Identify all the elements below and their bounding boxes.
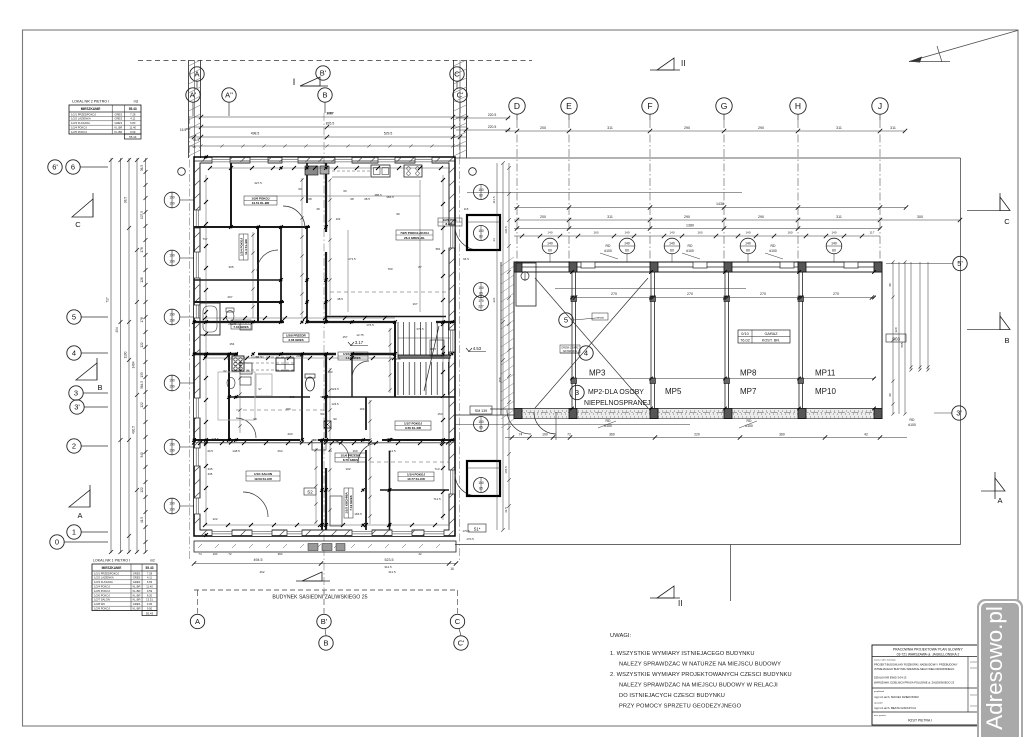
svg-text:282.5: 282.5 — [228, 322, 236, 326]
svg-text:55.43: 55.43 — [129, 135, 137, 139]
svg-text:160: 160 — [352, 449, 357, 453]
svg-text:WARSZAWA, DZIELNICA PRAGA POLU: WARSZAWA, DZIELNICA PRAGA POLUDNIE ul. Z… — [874, 681, 955, 685]
svg-text:55.43: 55.43 — [146, 566, 154, 570]
svg-text:#100: #100 — [604, 249, 612, 253]
svg-text:133: 133 — [140, 372, 144, 378]
svg-text:494: 494 — [115, 327, 119, 333]
svg-text:4.11: 4.11 — [147, 576, 153, 580]
svg-text:62: 62 — [223, 369, 227, 373]
svg-text:m2: m2 — [134, 100, 139, 104]
svg-text:76.02: 76.02 — [740, 339, 750, 343]
svg-text:7/2/5 POKOJ+KUCH: 7/2/5 POKOJ+KUCH — [400, 231, 428, 235]
svg-text:Adresowo.pl: Adresowo.pl — [982, 606, 1007, 730]
svg-text:270: 270 — [833, 292, 839, 296]
grid axis A vertical dash-dot — [189, 116, 191, 560]
svg-text:1464: 1464 — [132, 361, 136, 368]
svg-text:97: 97 — [258, 387, 262, 391]
svg-text:1087: 1087 — [327, 111, 334, 115]
svg-text:44: 44 — [328, 449, 332, 453]
svg-text:4: 4 — [584, 349, 588, 358]
svg-text:3: 3 — [575, 388, 579, 397]
svg-text:42: 42 — [418, 552, 422, 556]
svg-text:I: I — [293, 77, 296, 87]
svg-text:311: 311 — [836, 215, 842, 219]
grid axis C vertical dash-dot — [459, 113, 461, 560]
bottom dimension line — [194, 563, 456, 565]
svg-text:523.5: 523.5 — [385, 558, 394, 562]
svg-text:1438: 1438 — [716, 202, 724, 206]
svg-text:MP7: MP7 — [740, 387, 757, 396]
svg-text:90: 90 — [888, 393, 892, 397]
svg-text:157: 157 — [342, 335, 347, 339]
svg-text:MP3: MP3 — [589, 369, 606, 378]
svg-text:4.11: 4.11 — [130, 117, 136, 121]
svg-text:140: 140 — [745, 242, 751, 246]
grid bubble C top — [450, 67, 464, 81]
svg-text:12.75: 12.75 — [356, 333, 364, 337]
left chain ticks — [144, 158, 148, 554]
svg-text:311: 311 — [836, 126, 842, 130]
svg-text:68: 68 — [308, 197, 312, 201]
svg-text:386.5: 386.5 — [374, 193, 382, 197]
WC toilet — [226, 311, 234, 322]
grid bubble 5' right — [953, 256, 967, 270]
grid bubble B' top — [316, 66, 330, 80]
washbasin — [240, 322, 252, 330]
schedule table top-left — [69, 100, 141, 140]
svg-text:122: 122 — [140, 487, 144, 493]
svg-text:122: 122 — [140, 402, 144, 408]
svg-text:60: 60 — [832, 249, 836, 253]
svg-text:GRES: GRES — [115, 121, 123, 125]
room label top-left 2 vertical — [239, 234, 248, 260]
svg-text:H: H — [795, 101, 801, 111]
svg-text:RZUT PIETRA I: RZUT PIETRA I — [908, 719, 932, 723]
svg-text:320: 320 — [894, 327, 898, 332]
title block — [872, 645, 985, 725]
svg-text:#100: #100 — [769, 249, 777, 253]
svg-text:529.5: 529.5 — [384, 132, 393, 136]
svg-text:150: 150 — [169, 449, 175, 453]
svg-text:6: 6 — [71, 163, 75, 172]
svg-text:MP11: MP11 — [815, 369, 836, 378]
svg-text:94.5: 94.5 — [430, 347, 436, 351]
svg-text:40.5: 40.5 — [197, 438, 203, 442]
svg-text:360: 360 — [609, 433, 615, 437]
section flag II bottom — [650, 586, 682, 608]
svg-text:5: 5 — [564, 316, 568, 325]
svg-text:E: E — [566, 101, 572, 111]
svg-text:MIESZKANIE: MIESZKANIE — [102, 566, 122, 570]
svg-text:PRACOWNIA PROJEKTOWA 'PLAN GLO: PRACOWNIA PROJEKTOWA 'PLAN GLOWNY' — [893, 648, 964, 652]
beam dashed lines — [330, 291, 446, 293]
svg-text:MIESZKANIE: MIESZKANIE — [81, 107, 101, 111]
svg-text:74: 74 — [519, 433, 523, 437]
svg-text:KL.BR: KL.BR — [133, 607, 141, 611]
svg-text:790: 790 — [387, 267, 392, 271]
svg-text:10.77 KL.DR: 10.77 KL.DR — [407, 477, 425, 481]
svg-text:150: 150 — [169, 254, 175, 258]
svg-text:C': C' — [457, 91, 464, 100]
balcony box lower right — [467, 461, 500, 496]
garage X brace — [535, 278, 648, 408]
svg-text:41.5: 41.5 — [140, 517, 144, 523]
svg-text:9.50 KL.DR: 9.50 KL.DR — [405, 426, 422, 430]
svg-text:90: 90 — [298, 187, 302, 191]
svg-text:KL.BR: KL.BR — [133, 598, 141, 602]
svg-text:11.4 KL.BR: 11.4 KL.BR — [244, 238, 248, 255]
svg-text:462: 462 — [259, 570, 264, 574]
building-above wall strips — [188, 60, 190, 158]
leader 6 — [81, 166, 109, 168]
svg-text:1/2/1 PRZEDPOKOJ: 1/2/1 PRZEDPOKOJ — [94, 571, 120, 575]
svg-text:44: 44 — [312, 438, 316, 442]
svg-text:585: 585 — [900, 342, 904, 347]
garage mid line — [572, 378, 874, 380]
svg-text:5: 5 — [72, 313, 76, 322]
section flag A left — [69, 485, 90, 520]
svg-text:717: 717 — [202, 237, 207, 241]
svg-text:122: 122 — [140, 342, 144, 348]
garage roof drain boxes — [581, 262, 595, 268]
svg-text:4: 4 — [72, 349, 76, 358]
floor drain — [324, 421, 331, 428]
svg-text:50: 50 — [320, 395, 324, 399]
svg-text:2. WSZYSTKIE WYMIARY PROJEKTOW: 2. WSZYSTKIE WYMIARY PROJEKTOWANYCH CZES… — [610, 672, 792, 678]
svg-text:290: 290 — [684, 215, 690, 219]
svg-text:9.50: 9.50 — [147, 607, 153, 611]
svg-text:GRES: GRES — [115, 117, 123, 121]
grid bubble C bottom — [450, 614, 464, 628]
svg-text:311.5: 311.5 — [384, 565, 392, 569]
grid bubble 3' left — [70, 400, 84, 414]
svg-text:6.83: 6.83 — [147, 580, 153, 584]
svg-text:projektowal: projektowal — [874, 690, 885, 693]
svg-text:RD: RD — [606, 419, 611, 423]
svg-text:68: 68 — [350, 197, 354, 201]
grid bubble 1 left — [67, 525, 81, 539]
svg-text:36.5: 36.5 — [140, 165, 144, 171]
svg-text:GARAZ: GARAZ — [764, 332, 778, 336]
svg-text:#100: #100 — [604, 424, 612, 428]
svg-text:169: 169 — [360, 407, 365, 411]
svg-text:KOST. BR.: KOST. BR. — [762, 339, 780, 343]
svg-text:311.5: 311.5 — [388, 449, 396, 453]
svg-text:717: 717 — [106, 297, 110, 303]
svg-text:80: 80 — [479, 194, 483, 198]
long site line upper — [467, 192, 742, 194]
svg-text:KL.BR: KL.BR — [133, 593, 141, 597]
grid bubble B' bottom — [317, 614, 331, 628]
site line vertical stub — [730, 545, 732, 602]
svg-text:UWAGI:: UWAGI: — [610, 633, 632, 639]
room label kuchnia lower-center vertical — [344, 488, 353, 518]
small fixtures right mid — [430, 340, 444, 356]
svg-text:98: 98 — [253, 417, 257, 421]
room label right top small — [438, 218, 462, 226]
svg-text:366.5: 366.5 — [386, 195, 394, 199]
svg-text:5': 5' — [957, 259, 963, 268]
svg-text:B: B — [323, 639, 328, 648]
svg-text:494.5: 494.5 — [254, 558, 263, 562]
section flag II top — [650, 58, 685, 70]
grid bubble 3' right — [952, 406, 966, 420]
svg-text:150: 150 — [169, 443, 175, 447]
svg-text:GRES: GRES — [133, 576, 141, 580]
svg-text:150: 150 — [169, 379, 175, 383]
svg-text:200: 200 — [540, 126, 546, 130]
svg-text:1/2/7 SALON: 1/2/7 SALON — [94, 598, 110, 602]
svg-text:90: 90 — [333, 417, 337, 421]
svg-text:1: 1 — [72, 528, 76, 537]
garage inner dim line 270 — [572, 297, 874, 299]
svg-text:170.5: 170.5 — [466, 537, 474, 541]
grid axis B vertical dash-dot — [323, 113, 325, 590]
dashed neighbour building line — [194, 589, 456, 591]
svg-text:II: II — [678, 599, 682, 608]
svg-text:F: F — [647, 101, 652, 111]
inner dim row salon — [194, 442, 455, 444]
interior door swing arcs — [283, 206, 305, 228]
grid axis G dash-dot — [723, 120, 725, 262]
svg-text:427.5: 427.5 — [254, 181, 262, 185]
grid bubble D top — [509, 98, 525, 114]
svg-text:S1*: S1* — [474, 527, 481, 532]
svg-text:2: 2 — [72, 442, 76, 451]
svg-text:148.5: 148.5 — [232, 449, 240, 453]
svg-text:26.3 GRES+KL: 26.3 GRES+KL — [404, 236, 425, 240]
interior dimension lines — [205, 175, 207, 525]
svg-text:60: 60 — [746, 249, 750, 253]
svg-text:11.40: 11.40 — [129, 126, 136, 130]
schedule table bottom-left — [92, 559, 157, 616]
garage drain circles 140/60 — [542, 238, 558, 262]
svg-text:B: B — [322, 91, 327, 100]
svg-text:876.5: 876.5 — [326, 122, 335, 126]
svg-text:55.43: 55.43 — [146, 611, 154, 615]
svg-text:150: 150 — [478, 286, 484, 290]
svg-text:498.5: 498.5 — [251, 132, 260, 136]
RD leader labels top — [600, 244, 618, 259]
svg-text:wrota: wrota — [596, 315, 604, 319]
svg-text:50: 50 — [320, 412, 324, 416]
svg-text:140: 140 — [831, 242, 837, 246]
svg-text:72: 72 — [567, 433, 571, 437]
svg-text:85: 85 — [479, 426, 483, 430]
svg-text:ISTNIEJACEGO BUDYNKU MIESZKALN: ISTNIEJACEGO BUDYNKU MIESZKALNEGO WIELOR… — [874, 667, 954, 671]
building internal vertical walls — [230, 163, 232, 227]
grid bubble 2 left — [67, 439, 81, 453]
svg-text:1/2/3 KUCHNIA: 1/2/3 KUCHNIA — [71, 121, 90, 125]
svg-text:364.5: 364.5 — [140, 381, 144, 389]
svg-text:117: 117 — [870, 231, 875, 235]
svg-text:167: 167 — [412, 302, 417, 306]
svg-text:170.5: 170.5 — [462, 529, 470, 533]
svg-text:123.5: 123.5 — [331, 402, 339, 406]
svg-text:264: 264 — [277, 449, 282, 453]
svg-text:0/10: 0/10 — [741, 332, 748, 336]
garage storage room left — [516, 263, 536, 306]
svg-text:II: II — [681, 59, 685, 68]
svg-text:98.5: 98.5 — [124, 197, 128, 203]
svg-text:45.5: 45.5 — [193, 138, 199, 142]
section flag A right — [981, 472, 1005, 505]
svg-text:MP8: MP8 — [740, 369, 757, 378]
svg-text:RD: RD — [688, 244, 693, 248]
svg-text:713: 713 — [434, 467, 439, 471]
svg-text:178: 178 — [140, 247, 144, 253]
top strip hatches — [189, 60, 467, 156]
svg-text:490.5: 490.5 — [132, 426, 136, 434]
svg-text:160: 160 — [593, 231, 598, 235]
svg-text:NA PARKING: NA PARKING — [563, 350, 578, 353]
svg-text:150: 150 — [169, 502, 175, 506]
grid bubble C' top — [453, 88, 467, 102]
svg-text:NALEZY SPRAWDZAC W NATURZE NA: NALEZY SPRAWDZAC W NATURZE NA MIEJSCU BU… — [619, 662, 781, 668]
svg-text:1/2/1 PRZEDPOKOJ: 1/2/1 PRZEDPOKOJ — [71, 112, 97, 116]
grid bubble C' bottom — [454, 636, 468, 650]
svg-text:202.5: 202.5 — [296, 354, 304, 358]
svg-text:220.5: 220.5 — [488, 113, 497, 117]
corner circle right — [469, 168, 477, 176]
svg-text:72: 72 — [228, 552, 232, 556]
svg-text:D: D — [514, 101, 520, 111]
section mark I bottom — [296, 572, 330, 581]
svg-text:55.43: 55.43 — [129, 107, 137, 111]
svg-text:RD: RD — [910, 418, 915, 422]
grid axis J dash-dot — [879, 120, 881, 262]
svg-text:88: 88 — [246, 369, 250, 373]
svg-text:180: 180 — [285, 407, 290, 411]
svg-text:8.20: 8.20 — [147, 593, 153, 597]
svg-text:220.5: 220.5 — [488, 125, 497, 129]
svg-text:GRES: GRES — [133, 580, 141, 584]
svg-text:123.5: 123.5 — [331, 387, 339, 391]
garage bottom dim chain — [505, 437, 907, 439]
svg-text:MP2-DLA OSOBY: MP2-DLA OSOBY — [588, 389, 644, 396]
building top wall inner line — [194, 160, 455, 162]
svg-text:36: 36 — [192, 145, 196, 149]
svg-text:290: 290 — [684, 126, 690, 130]
garage stall partitions — [571, 272, 573, 409]
section flag B left — [76, 358, 103, 392]
svg-text:100: 100 — [213, 552, 218, 556]
level mark +4.53 — [466, 346, 486, 352]
svg-text:200: 200 — [540, 215, 546, 219]
svg-text:1/2/8 WC: 1/2/8 WC — [94, 602, 105, 606]
svg-text:1/2/9 POKOJ: 1/2/9 POKOJ — [94, 607, 110, 611]
svg-text:GRES: GRES — [115, 112, 123, 116]
svg-text:C': C' — [458, 639, 465, 648]
svg-text:150: 150 — [169, 508, 175, 512]
room label salon — [246, 471, 280, 481]
junction tick diamonds — [192, 155, 454, 537]
svg-text:264: 264 — [263, 438, 268, 442]
wall hatch ticks on exterior — [195, 168, 200, 524]
svg-text:B: B — [1004, 336, 1009, 345]
svg-text:150: 150 — [478, 420, 484, 424]
svg-text:13.51: 13.51 — [146, 598, 153, 602]
svg-text:220: 220 — [694, 433, 700, 437]
top-right short dims 220.5 — [456, 117, 510, 119]
WC mid — [306, 377, 315, 391]
svg-text:280.5: 280.5 — [254, 355, 262, 359]
room label pokoj right mid — [395, 421, 431, 430]
svg-text:8.2 KL: 8.2 KL — [445, 222, 454, 226]
svg-text:42: 42 — [864, 433, 868, 437]
stair handrail bar — [398, 355, 450, 358]
svg-text:311.5: 311.5 — [405, 438, 413, 442]
long site line lower — [455, 544, 961, 546]
section flag B right — [967, 312, 1010, 345]
stair direction line — [424, 326, 439, 391]
svg-text:290: 290 — [758, 215, 764, 219]
building internal horizontal walls — [194, 226, 310, 228]
svg-text:1/2/4 POKOJ: 1/2/4 POKOJ — [71, 126, 87, 130]
room label kuchnia near bath — [231, 320, 251, 329]
SM box right — [470, 406, 492, 414]
furniture outline gray — [218, 372, 255, 420]
svg-text:GRES: GRES — [133, 571, 141, 575]
svg-text:290: 290 — [758, 126, 764, 130]
svg-text:41.5: 41.5 — [504, 507, 508, 513]
svg-text:PROJEKT BUDOWLANY ROZBIORKI, N: PROJEKT BUDOWLANY ROZBIORKI, NADBUDOWY I… — [874, 663, 958, 667]
grid bubble E top — [561, 98, 577, 114]
svg-text:150: 150 — [169, 313, 175, 317]
garaz label box — [738, 330, 790, 343]
svg-text:60: 60 — [548, 249, 552, 253]
hatched boxes on bottom wall — [308, 544, 318, 551]
svg-text:B': B' — [320, 69, 327, 78]
svg-text:311: 311 — [890, 126, 896, 130]
svg-text:0: 0 — [55, 538, 59, 547]
svg-text:1/2/2 LAZIENKA: 1/2/2 LAZIENKA — [71, 117, 91, 121]
svg-text:1/2/6 POKOJ: 1/2/6 POKOJ — [94, 593, 110, 597]
lower kitchen fixtures — [312, 440, 326, 450]
svg-text:NALEZY SPRAWDZAC NA MIEJSCU BU: NALEZY SPRAWDZAC NA MIEJSCU BUDOWY W REL… — [619, 683, 778, 689]
garage pavement band dotted — [515, 409, 882, 419]
kitchen stove 4 burners — [404, 165, 422, 177]
svg-text:MP10: MP10 — [815, 387, 836, 396]
svg-text:#100: #100 — [908, 423, 916, 427]
svg-text:126: 126 — [140, 277, 144, 283]
svg-text:340: 340 — [140, 452, 144, 458]
level mark +3.17 — [348, 340, 368, 346]
svg-text:1100: 1100 — [124, 351, 128, 358]
room label wc mid — [338, 352, 368, 360]
grid bubble A'' top — [222, 88, 236, 102]
svg-text:16: 16 — [450, 567, 454, 571]
svg-text:C: C — [1004, 217, 1010, 226]
svg-text:3': 3' — [956, 409, 962, 418]
svg-text:305: 305 — [228, 265, 233, 269]
site line top right — [455, 157, 961, 159]
svg-text:KL.BR: KL.BR — [133, 589, 141, 593]
svg-text:RD: RD — [771, 244, 776, 248]
svg-text:#100: #100 — [686, 249, 694, 253]
svg-text:7.28: 7.28 — [130, 112, 136, 116]
kitchen counter top-center — [332, 176, 370, 178]
svg-text:176.5: 176.5 — [366, 323, 374, 327]
UWAGI notes text — [610, 633, 792, 710]
svg-text:LOKAL NR 1 PIETRO I: LOKAL NR 1 PIETRO I — [93, 559, 130, 563]
grid bubble 0 left — [50, 535, 64, 549]
svg-text:A: A — [77, 511, 82, 520]
svg-text:7.28: 7.28 — [147, 571, 153, 575]
svg-text:98: 98 — [888, 283, 892, 287]
grid bubble B top — [318, 88, 332, 102]
svg-text:19.59 KL.DR: 19.59 KL.DR — [254, 477, 272, 481]
